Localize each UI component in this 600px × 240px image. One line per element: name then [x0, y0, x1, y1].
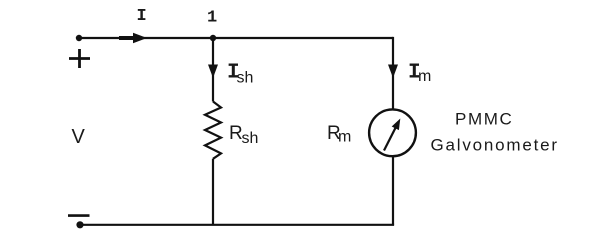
wire: node 1 down to resistor Rsh top [212, 38, 214, 102]
svg-text:m: m [418, 68, 431, 85]
node 1 junction dot [210, 35, 216, 41]
svg-text:m: m [338, 129, 351, 146]
svg-text:sh: sh [242, 130, 259, 147]
terminal dot (negative) [76, 221, 83, 228]
bottom rail wire [80, 224, 394, 226]
wire: top rail, node 1 to right corner [213, 37, 393, 39]
current arrow I on top wire [119, 33, 147, 44]
wire: meter bottom to bottom rail [392, 156, 394, 224]
wire: right branch down to meter top [392, 37, 394, 109]
svg-text:I: I [137, 7, 147, 26]
meter needle arrow [384, 119, 400, 151]
svg-text:sh: sh [237, 70, 254, 87]
arrow Ish (current into shunt branch) [208, 65, 218, 79]
svg-text:Galvonometer: Galvonometer [431, 135, 559, 154]
arrow Im (current into meter branch) [388, 65, 398, 79]
wire: top rail, + terminal to node 1 [79, 37, 213, 39]
svg-text:V: V [72, 126, 86, 148]
minus sign label [68, 214, 90, 217]
svg-text:1: 1 [207, 9, 217, 28]
svg-text:PMMC: PMMC [455, 110, 513, 129]
terminal dot (positive) [76, 35, 82, 41]
resistor Rsh zigzag [205, 102, 221, 159]
plus sign label [69, 49, 90, 68]
wire: resistor Rsh bottom to bottom rail [212, 159, 214, 225]
PMMC galvanometer meter body [369, 109, 416, 156]
